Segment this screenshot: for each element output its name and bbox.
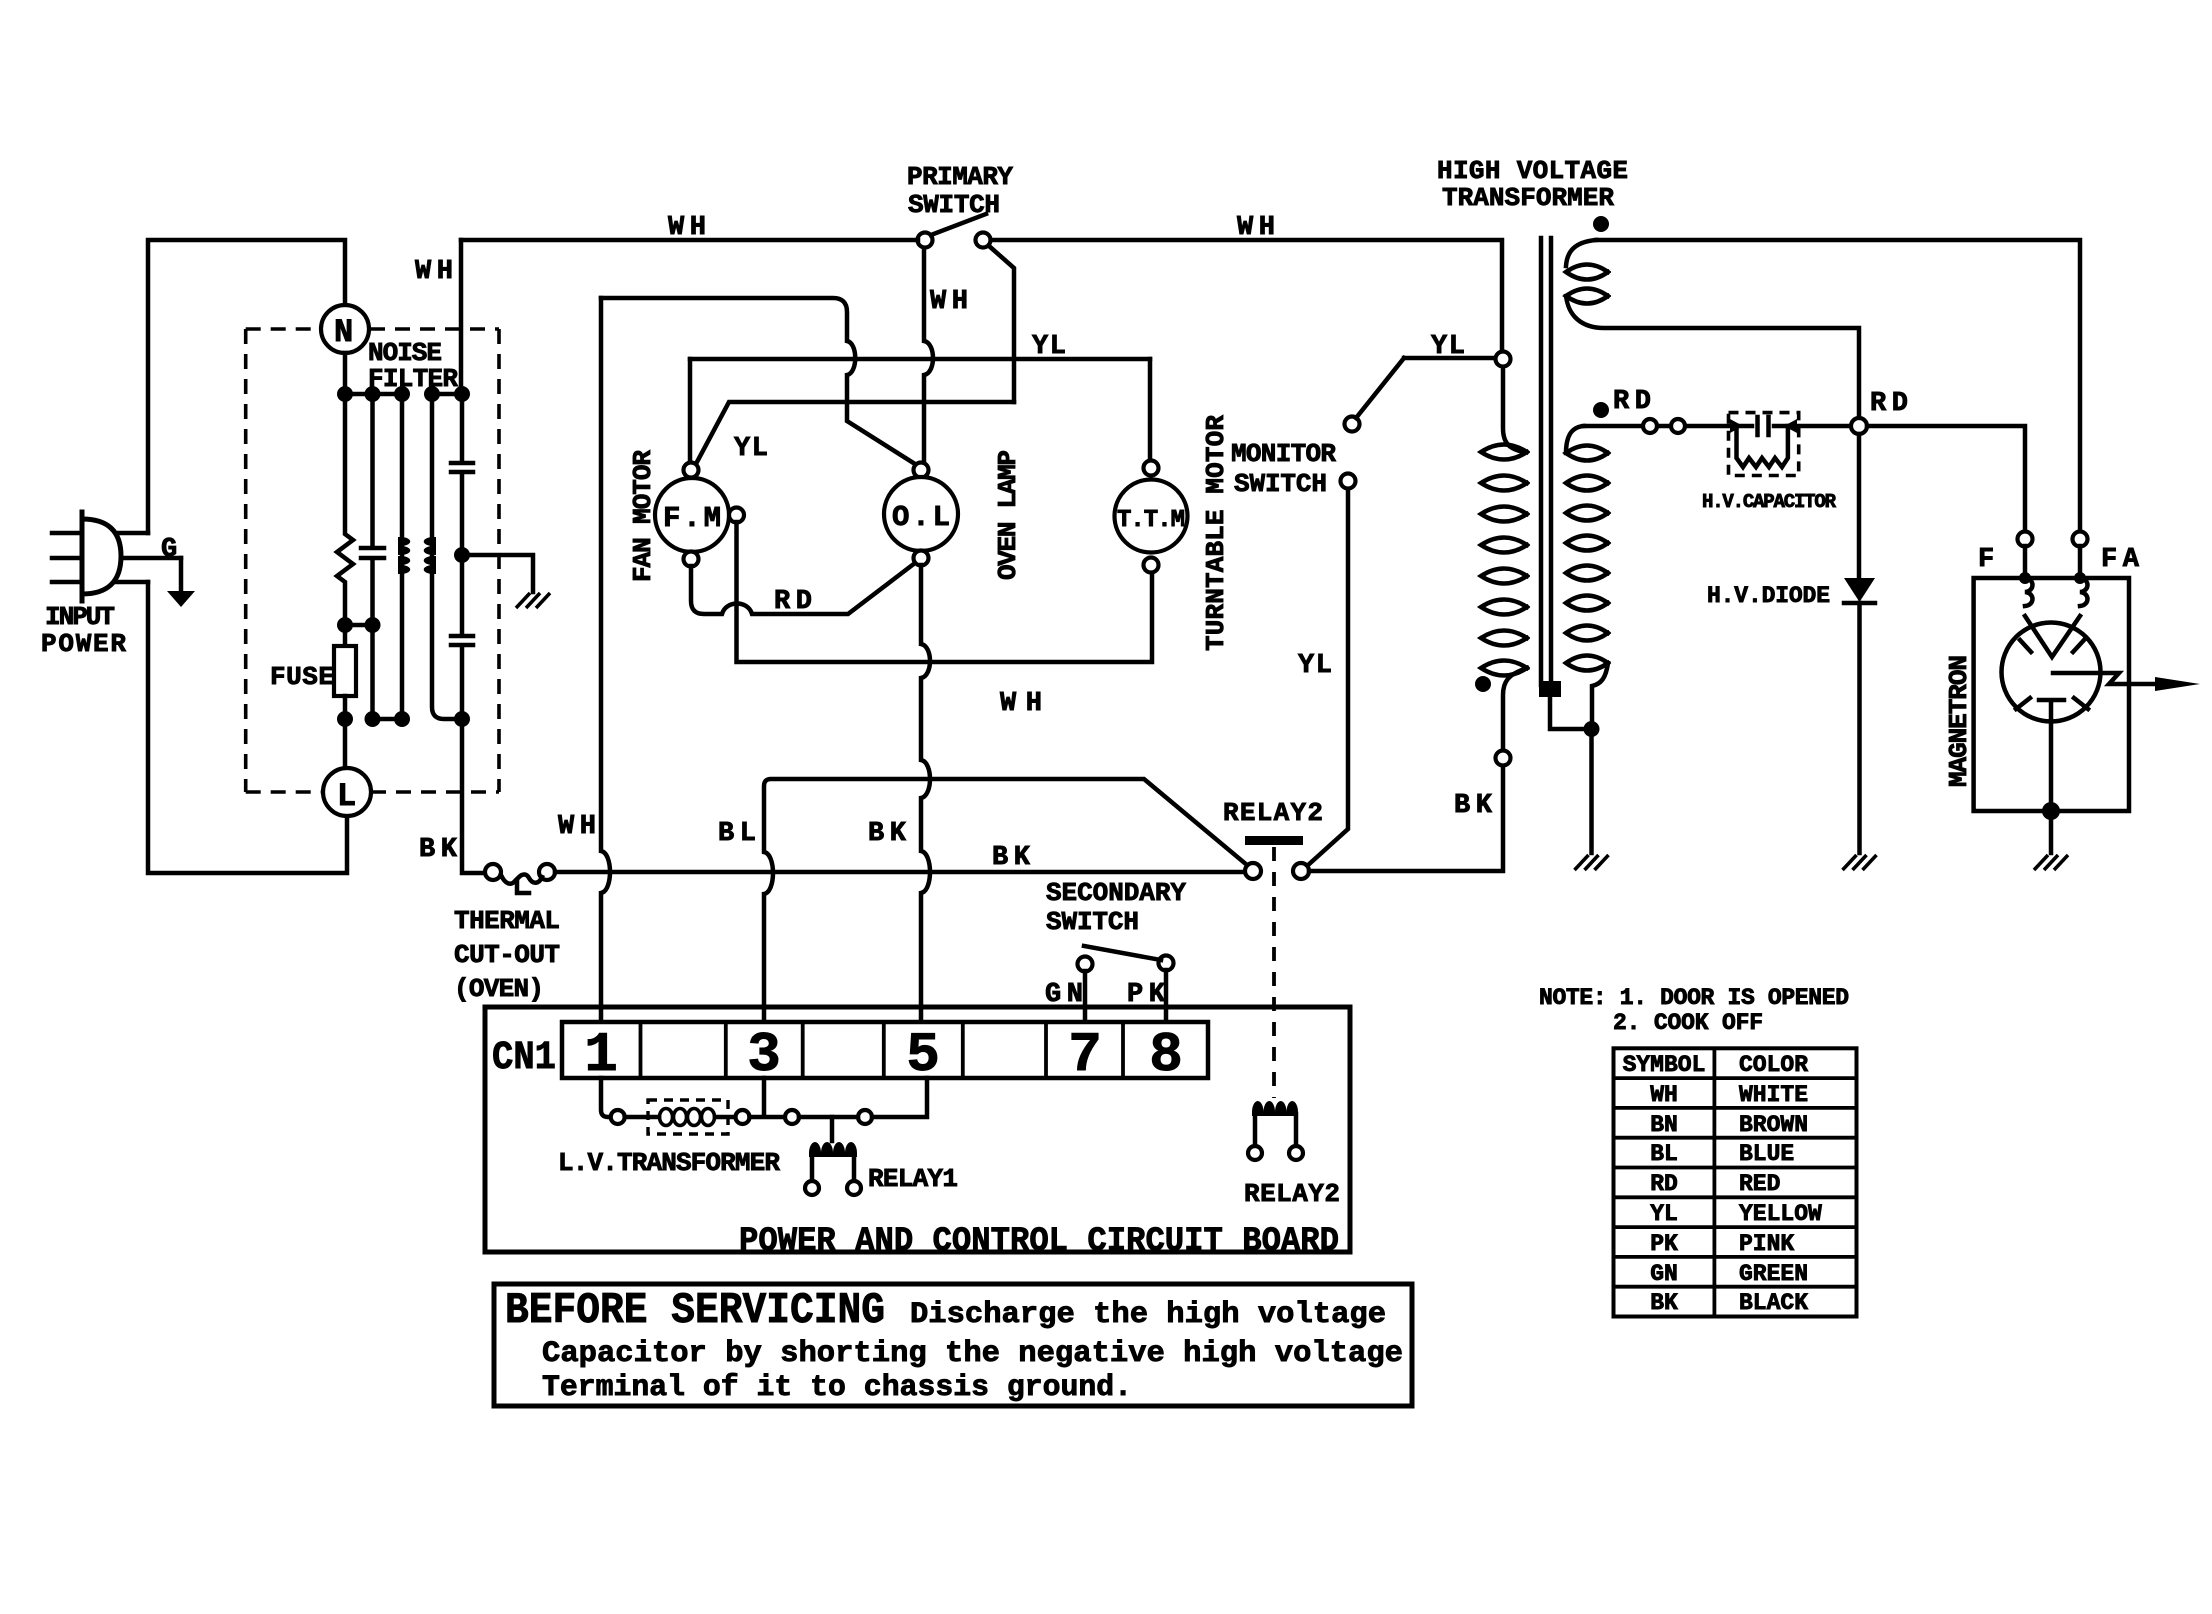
label TURNTABLE MOTOR: [1201, 415, 1231, 651]
transformer polarity dot (primary bottom): [1475, 676, 1491, 692]
magnetron terminal dots: [2019, 572, 2086, 584]
svg-text:BLACK: BLACK: [1739, 1290, 1808, 1316]
svg-text:WH: WH: [1650, 1082, 1678, 1108]
transformer polarity dot (RD): [1593, 402, 1609, 418]
table row YL YELLOW: [1650, 1201, 1822, 1227]
transformer polarity dot (secondary top): [1593, 216, 1609, 232]
junction dots row1: [337, 386, 470, 402]
svg-text:RED: RED: [1739, 1171, 1780, 1197]
svg-text:5: 5: [906, 1023, 940, 1087]
relay1 contacts: [785, 1110, 872, 1124]
wire F stub: [2023, 546, 2028, 578]
table row GN GREEN: [1650, 1261, 1808, 1287]
svg-text:Terminal of it to chassis grou: Terminal of it to chassis ground.: [542, 1371, 1132, 1405]
svg-text:BLUE: BLUE: [1739, 1141, 1794, 1167]
wire LV to pin3 and relay1: [750, 1078, 786, 1117]
wire N to junction row: [343, 353, 348, 394]
svg-text:INPUT: INPUT: [45, 602, 115, 632]
fan motor F.M: [655, 478, 729, 552]
input power plug P1: [82, 512, 121, 601]
label BK (relay2 to transformer): [1454, 791, 1493, 821]
power and control circuit board outline: [485, 1007, 1350, 1252]
wire YL feed line to motors: [697, 402, 1014, 462]
magnetron case ground dot: [2042, 802, 2060, 820]
label RELAY2 (coil): [1244, 1179, 1340, 1209]
L.V. transformer T2: [611, 1100, 750, 1134]
connector circle (transformer primary lead): [1496, 751, 1511, 766]
svg-text:WHITE: WHITE: [1739, 1082, 1808, 1108]
svg-text:YL: YL: [1431, 332, 1465, 362]
transformer primary winding: [1481, 445, 1527, 676]
wire WH pin1 vertical with hop: [601, 298, 610, 1022]
chassis ground (diode): [1843, 855, 1877, 870]
wire bus mid: [345, 623, 373, 628]
table row BL BLUE: [1650, 1141, 1794, 1167]
connector circle F: [2018, 532, 2033, 547]
svg-text:N: N: [334, 314, 353, 351]
wire plug prongs and leads: [52, 533, 181, 582]
label HIGH VOLTAGE TRANSFORMER: [1437, 156, 1628, 213]
svg-text:TURNTABLE MOTOR: TURNTABLE MOTOR: [1201, 415, 1231, 651]
svg-text:CN1: CN1: [492, 1036, 556, 1081]
wire BK bus: [555, 870, 1245, 875]
note text: [1539, 985, 1849, 1036]
label H.V.CAPACITOR: [1702, 491, 1837, 513]
wire filter ground branch: [462, 555, 533, 592]
label RELAY2 (switch): [1223, 798, 1323, 828]
svg-text:POWER: POWER: [41, 629, 126, 659]
relay2 contacts: [1245, 863, 1309, 879]
svg-text:YL: YL: [1650, 1201, 1678, 1227]
wire block top feed to oven lamp: [601, 298, 915, 464]
transformer secondary winding: [1566, 446, 1608, 671]
label FUSE: [270, 662, 334, 692]
wire primary bottom lead: [1503, 668, 1527, 750]
wire GN to pin7: [1083, 971, 1088, 1022]
svg-text:POWER AND CONTROL CIRCUIT BOAR: POWER AND CONTROL CIRCUIT BOARD: [739, 1223, 1339, 1261]
fan motor terminal bottom: [684, 552, 699, 567]
wire BK oven lamp to pin5 with hops: [921, 565, 930, 1022]
label THERMAL CUT-OUT (OVEN): [454, 906, 560, 1004]
svg-text:L: L: [337, 778, 356, 815]
pin 8: [1149, 1023, 1183, 1087]
table row BN BROWN: [1650, 1112, 1808, 1138]
label WH (pin1 wire): [558, 812, 596, 842]
chassis ground (transformer): [1575, 855, 1609, 870]
wire WH top line (filter to switch): [461, 238, 918, 243]
wire PK to pin8: [1164, 970, 1169, 1022]
magnetron tube V1: [2002, 623, 2101, 722]
wire primary switch to YL bus: [989, 246, 1014, 402]
label WH (top left): [415, 257, 453, 287]
svg-text:MONITOR: MONITOR: [1231, 439, 1336, 469]
svg-text:YL: YL: [1032, 332, 1066, 362]
chassis ground (noise filter): [516, 593, 550, 608]
relay2 coil K2: [1248, 1101, 1303, 1160]
wire core to ground junction: [1550, 697, 1583, 729]
svg-text:YL: YL: [734, 434, 768, 464]
label G: [161, 535, 177, 565]
fuse F1: [334, 646, 356, 768]
pin 1: [584, 1023, 618, 1087]
svg-text:SYMBOL: SYMBOL: [1623, 1052, 1706, 1078]
symbol color table: [1614, 1048, 1857, 1316]
junction dots row2: [337, 711, 470, 727]
noise filter dashed box: [246, 329, 499, 792]
turntable motor T.T.M: [1115, 480, 1188, 553]
wire FA stub: [2078, 546, 2083, 578]
label BL: [718, 819, 756, 849]
wire monitor switch to transformer node: [1404, 356, 1495, 361]
svg-text:RELAY2: RELAY2: [1223, 798, 1323, 828]
svg-text:RD: RD: [1650, 1171, 1678, 1197]
magnetron filament coils: [2025, 578, 2088, 606]
wire YL monitor switch to relay2: [1307, 489, 1348, 866]
magnetron output arrow: [2053, 673, 2200, 691]
node G wire: [179, 558, 184, 592]
label RD (diode junction): [1870, 389, 1908, 419]
wire secondary bottom lead: [1592, 663, 1608, 721]
svg-text:8: 8: [1149, 1023, 1183, 1087]
label YL (monitor drop): [1298, 651, 1332, 681]
svg-text:SWITCH: SWITCH: [1046, 907, 1139, 937]
svg-text:2. COOK OFF: 2. COOK OFF: [1613, 1010, 1763, 1036]
secondary switch S3: [1078, 946, 1174, 972]
choke line 4: [424, 394, 462, 719]
fan motor terminal top: [684, 463, 699, 478]
wire WH top right to magnetron FA: [1596, 240, 2080, 531]
svg-text:FILTER: FILTER: [368, 364, 458, 394]
wire magnetron cathode to ground: [2049, 721, 2054, 853]
label RD (transformer): [1613, 387, 1651, 417]
label YL (bus): [1032, 332, 1066, 362]
wire RD secondary to capacitor: [1566, 426, 1851, 453]
label GN: [1045, 980, 1083, 1010]
wire RD fan to lamp with hop: [691, 563, 915, 614]
svg-text:RELAY2: RELAY2: [1244, 1179, 1340, 1209]
label H.V.DIODE: [1707, 583, 1830, 609]
relay1 coil K1: [805, 1117, 861, 1195]
label YL (node): [1431, 332, 1465, 362]
wire RD node to magnetron F: [1867, 426, 2025, 531]
svg-text:T.T.M: T.T.M: [1117, 507, 1185, 534]
label OVEN LAMP: [993, 450, 1023, 580]
label FA: [2101, 545, 2140, 575]
ground G earth symbol: [167, 591, 195, 607]
primary switch S1: [918, 214, 991, 248]
label WH (top mid): [668, 213, 706, 243]
label INPUT POWER: [41, 602, 126, 659]
svg-text:THERMAL: THERMAL: [454, 906, 560, 936]
wire fan right terminal to WH return: [737, 522, 1153, 662]
junction dots mid: [337, 617, 381, 633]
pin 5: [906, 1023, 940, 1087]
label POWER AND CONTROL CIRCUIT BOARD: [739, 1223, 1339, 1261]
wire junction bus row: [345, 392, 462, 397]
transformer filament winding: [1566, 240, 1859, 417]
svg-text:(OVEN): (OVEN): [454, 974, 544, 1004]
svg-text:FUSE: FUSE: [270, 662, 334, 692]
turntable motor terminal bottom: [1144, 558, 1159, 573]
wire WH drop from top line: [459, 240, 464, 394]
label RELAY1: [868, 1164, 958, 1194]
junction dot (secondary ground): [1584, 721, 1600, 737]
magnetron cathode chevron: [2025, 616, 2080, 657]
label MAGNETRON: [1944, 655, 1974, 787]
svg-text:CUT-OUT: CUT-OUT: [454, 940, 560, 970]
svg-text:Discharge the high voltage: Discharge the high voltage: [910, 1298, 1386, 1332]
terminal N: [321, 305, 369, 353]
svg-text:O.L: O.L: [892, 501, 950, 534]
H.V. capacitor C1: [1729, 413, 1799, 476]
relay2 contact bar: [1245, 836, 1303, 845]
svg-text:7: 7: [1068, 1023, 1102, 1087]
node RD (diode junction): [1851, 418, 1867, 434]
svg-text:BROWN: BROWN: [1739, 1112, 1808, 1138]
svg-text:YL: YL: [1298, 651, 1332, 681]
transformer core: [1539, 238, 1561, 697]
svg-text:GREEN: GREEN: [1739, 1261, 1808, 1287]
label WH (switch drop): [930, 287, 968, 317]
table row RD RED: [1650, 1171, 1780, 1197]
svg-text:F.M: F.M: [663, 502, 721, 535]
svg-text:SECONDARY: SECONDARY: [1046, 878, 1186, 908]
wire left rail top (plug to WH top line and N): [148, 240, 345, 533]
label BK (pin5 wire): [868, 819, 907, 849]
fan motor terminal right: [729, 508, 744, 523]
svg-text:NOTE: 1. DOOR IS OPENED: NOTE: 1. DOOR IS OPENED: [1539, 985, 1849, 1011]
table row BK BLACK: [1650, 1290, 1808, 1316]
connector circles (RD lead): [1643, 419, 1685, 433]
label PK: [1127, 980, 1166, 1010]
label L.V.TRANSFORMER: [558, 1148, 780, 1178]
oven lamp terminal top: [914, 463, 929, 478]
table row WH WHITE: [1650, 1082, 1808, 1108]
label YL (fan motor): [734, 434, 768, 464]
choke line 3: [398, 394, 410, 719]
wire primary top lead: [1503, 367, 1524, 452]
label PRIMARY SWITCH: [907, 162, 1013, 220]
pin 7: [1068, 1023, 1102, 1087]
terminal L: [323, 768, 371, 816]
svg-text:L.V.TRANSFORMER: L.V.TRANSFORMER: [558, 1148, 780, 1178]
svg-text:BEFORE SERVICING: BEFORE SERVICING: [505, 1286, 885, 1336]
label F: [1978, 545, 1994, 575]
wire relay1 to pin5: [872, 1078, 927, 1117]
label WH (top right): [1237, 213, 1275, 243]
svg-text:BK: BK: [1650, 1290, 1678, 1316]
before servicing warning box: [494, 1284, 1412, 1406]
pin 3: [747, 1023, 781, 1087]
connector CN1 block: [562, 1022, 1208, 1078]
wire left rail bottom (plug to BK bus to L): [148, 582, 347, 873]
label NOISE FILTER: [368, 338, 458, 394]
svg-text:Capacitor by shorting the nega: Capacitor by shorting the negative high …: [542, 1337, 1403, 1371]
svg-text:H.V.DIODE: H.V.DIODE: [1707, 583, 1830, 609]
label RD: [774, 587, 812, 617]
wire YL bus to fan motor: [688, 359, 693, 462]
capacitor branch line 5: [451, 394, 485, 873]
wire pin1 to LV transformer: [601, 1078, 608, 1117]
svg-text:YELLOW: YELLOW: [1739, 1201, 1822, 1227]
svg-text:PRIMARY: PRIMARY: [907, 162, 1013, 192]
svg-text:OVEN LAMP: OVEN LAMP: [993, 450, 1023, 580]
wire relay2 to transformer primary: [1309, 766, 1503, 871]
label SECONDARY SWITCH: [1046, 878, 1186, 937]
table row PK PINK: [1650, 1231, 1794, 1257]
wire bus row2: [373, 717, 403, 722]
wire BL pin3 to relay2 with hop: [764, 779, 1247, 1022]
label MONITOR SWITCH: [1231, 439, 1336, 499]
oven lamp terminal bottom: [914, 551, 929, 566]
label WH (return): [1000, 689, 1042, 719]
warning text: [505, 1286, 1403, 1405]
label BK (bus): [992, 843, 1031, 873]
turntable motor terminal top: [1144, 461, 1159, 476]
svg-text:HIGH VOLTAGE: HIGH VOLTAGE: [1437, 156, 1628, 186]
svg-text:PINK: PINK: [1739, 1231, 1794, 1257]
svg-text:PK: PK: [1650, 1231, 1678, 1257]
wire YL bus to turntable motor: [1148, 359, 1153, 461]
svg-text:BN: BN: [1650, 1112, 1678, 1138]
oven lamp O.L: [884, 477, 958, 551]
svg-text:MAGNETRON: MAGNETRON: [1944, 655, 1974, 787]
capacitor branch line 2: [361, 394, 384, 719]
svg-text:G: G: [161, 535, 177, 565]
label BK (noise filter output): [419, 835, 458, 865]
resistor branch line 1: [337, 394, 353, 646]
svg-text:BL: BL: [1650, 1141, 1678, 1167]
svg-text:FAN MOTOR: FAN MOTOR: [628, 450, 658, 582]
chassis ground (magnetron): [2034, 855, 2068, 870]
wire WH top line (switch to transformer): [991, 240, 1502, 351]
svg-text:COLOR: COLOR: [1739, 1052, 1808, 1078]
svg-text:SWITCH: SWITCH: [1234, 469, 1327, 499]
wire diode to ground: [1857, 603, 1862, 853]
connector circle FA: [2073, 532, 2088, 547]
wire YL bus: [690, 357, 1150, 362]
label FAN MOTOR: [628, 450, 658, 582]
wire relay2 actuator dashed link: [1272, 847, 1276, 1098]
H.V. diode D1: [1844, 578, 1875, 603]
thermal cut-out contacts: [485, 864, 555, 893]
wire secondary ground drop: [1589, 737, 1594, 853]
svg-text:SWITCH: SWITCH: [908, 190, 1000, 220]
monitor switch S2: [1341, 358, 1405, 489]
svg-text:H.V.CAPACITOR: H.V.CAPACITOR: [1702, 491, 1837, 513]
wire primary switch to oven lamp with hop: [924, 247, 933, 461]
magnetron case: [1974, 578, 2129, 811]
junction dot ground branch: [454, 547, 470, 563]
node YL transformer primary top: [1496, 352, 1511, 367]
wire node to diode: [1857, 434, 1862, 579]
svg-text:F: F: [1978, 545, 1994, 575]
svg-text:TRANSFORMER: TRANSFORMER: [1442, 183, 1614, 213]
table row SYMBOL COLOR: [1623, 1052, 1809, 1078]
label CN1: [492, 1036, 556, 1081]
svg-text:RELAY1: RELAY1: [868, 1164, 958, 1194]
svg-text:GN: GN: [1650, 1261, 1678, 1287]
